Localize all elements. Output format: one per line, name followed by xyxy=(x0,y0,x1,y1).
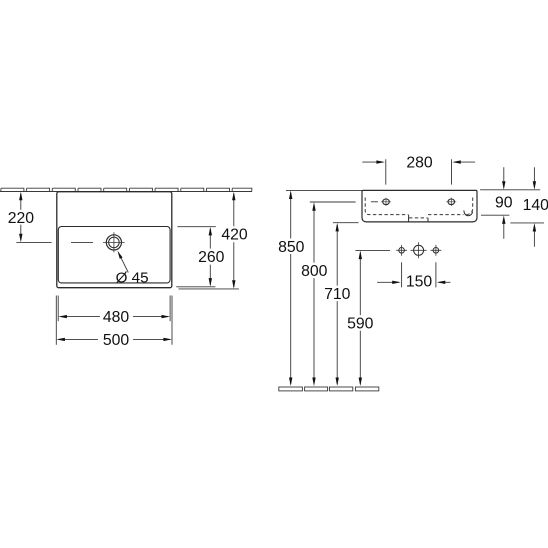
dimension 220 xyxy=(16,194,51,243)
svg-text:150: 150 xyxy=(406,274,433,291)
dimension 140 xyxy=(510,167,544,247)
svg-text:480: 480 xyxy=(103,309,130,326)
svg-text:420: 420 xyxy=(221,227,248,244)
drain hole outer circle xyxy=(106,235,121,250)
wall tiles row xyxy=(1,188,252,191)
svg-text:140: 140 xyxy=(523,197,548,214)
dimension 260 xyxy=(176,227,216,287)
extension lines below basin xyxy=(56,296,172,345)
svg-text:800: 800 xyxy=(301,263,328,280)
mounting hole middle xyxy=(414,245,424,255)
drain crosshair xyxy=(103,232,125,252)
svg-text:280: 280 xyxy=(406,155,433,172)
floor tiles xyxy=(279,387,379,391)
drain hole inner circle xyxy=(109,237,120,248)
drain notch left edge xyxy=(408,215,410,222)
drain centerline dash xyxy=(71,241,93,243)
dimension 280 xyxy=(362,159,475,184)
mounting hole left xyxy=(399,248,405,254)
dimension 500 xyxy=(58,338,170,340)
dimension 590 xyxy=(355,250,390,384)
tap hole centerline dash xyxy=(371,201,378,203)
svg-text:500: 500 xyxy=(103,332,130,349)
svg-text:710: 710 xyxy=(324,286,351,303)
svg-text:850: 850 xyxy=(278,239,305,256)
dimension 150 xyxy=(377,262,450,287)
wall line (left view) xyxy=(0,191,252,193)
reference line for 90/140 xyxy=(480,189,540,191)
dimension 480 xyxy=(60,316,168,318)
svg-text:590: 590 xyxy=(347,316,374,333)
mounting hole right xyxy=(433,248,439,254)
tap hole right (front view) xyxy=(448,199,455,205)
svg-text:220: 220 xyxy=(8,210,35,227)
wall mounting line (850 reference) xyxy=(286,189,364,191)
svg-text:260: 260 xyxy=(198,249,225,266)
drain notch right edge xyxy=(427,218,429,222)
hidden bowl contour (dashed) xyxy=(365,198,473,218)
dimension 90 xyxy=(481,167,509,239)
label diameter 45 leader arrow xyxy=(121,257,129,272)
svg-text:Ø 45: Ø 45 xyxy=(116,269,149,286)
overflow arc detail xyxy=(464,210,473,215)
basin front outline xyxy=(362,190,477,222)
dimension 420 xyxy=(179,194,239,289)
tap hole left (front view) xyxy=(383,199,390,205)
dimension 850 xyxy=(290,192,292,384)
basin outer rectangle (top view) xyxy=(57,192,172,288)
dimension 800 xyxy=(310,202,356,384)
dimension 710 xyxy=(333,223,359,385)
basin inner bowl rounded rect xyxy=(58,227,170,283)
svg-text:90: 90 xyxy=(495,195,513,212)
